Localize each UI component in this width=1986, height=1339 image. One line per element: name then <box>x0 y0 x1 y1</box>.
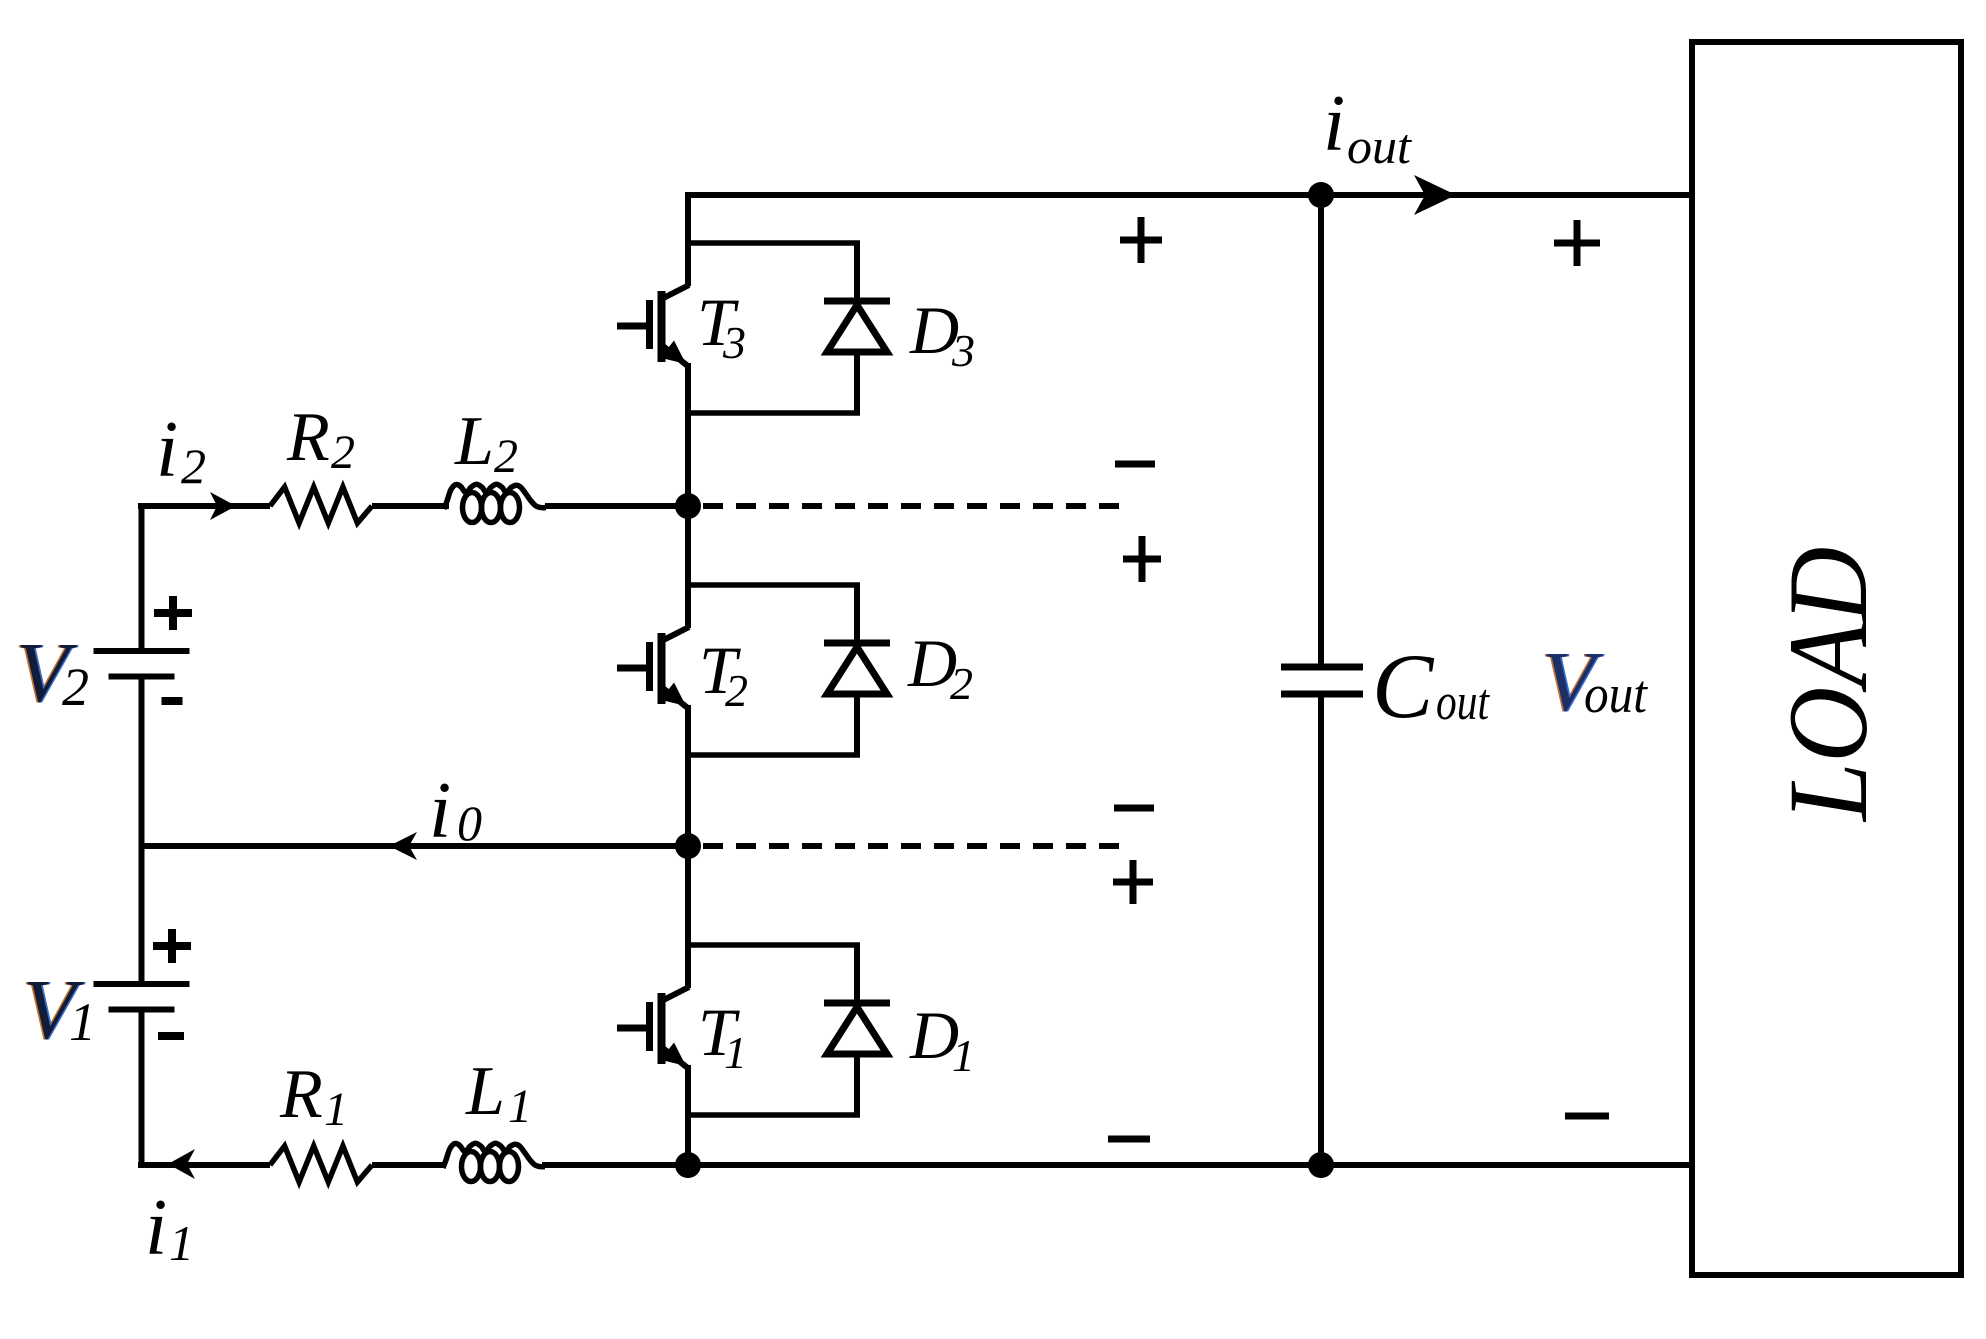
wire: T1/D1 loop bottom connector <box>688 1112 860 1118</box>
wire: L2 to node A <box>545 503 688 509</box>
polarity - above dashed node B net <box>1114 805 1154 812</box>
diode D1 <box>824 945 890 1115</box>
polarity - of V1 <box>158 1032 184 1040</box>
svg-text:2: 2 <box>950 658 973 709</box>
wire: middle column top stub <box>685 192 691 286</box>
diode D2 <box>824 585 890 755</box>
wire: bottom rail left corner to R1 <box>138 1162 270 1168</box>
transistor T2 (IGBT) <box>617 627 689 709</box>
wire: T2/D2 loop bottom connector <box>688 752 860 758</box>
svg-text:1: 1 <box>952 1030 975 1081</box>
node net: dashed measurement line from node B <box>703 843 1128 849</box>
node B (i0/T2/T1 junction) <box>675 833 701 859</box>
svg-text:1: 1 <box>508 1080 532 1133</box>
LOAD block <box>1692 42 1961 1275</box>
svg-text:1: 1 <box>724 1027 747 1078</box>
wire: node A to T2 collector <box>685 506 691 628</box>
diode D3 <box>824 243 890 413</box>
battery V2 <box>94 651 190 677</box>
capacitor Cout <box>1281 667 1363 694</box>
svg-text:out: out <box>1584 664 1649 724</box>
wire: T1/D1 loop top connector <box>688 942 860 948</box>
svg-text:1: 1 <box>69 992 96 1052</box>
arrow: iout current direction <box>1414 175 1456 215</box>
svg-text:L: L <box>465 1053 505 1130</box>
node: Cout on bottom rail <box>1308 1152 1334 1178</box>
wire: V2 minus plate down to i0 junction <box>139 677 145 846</box>
svg-text:R: R <box>279 1056 323 1133</box>
label V1 <box>21 961 96 1057</box>
svg-text:1: 1 <box>324 1083 348 1136</box>
transistor T1 (IGBT) <box>617 987 689 1069</box>
svg-text:2: 2 <box>181 438 206 494</box>
svg-text:i: i <box>429 767 451 855</box>
node A (L2/T3/T2 junction) <box>675 493 701 519</box>
wire: top feeder V2 to R2 <box>138 503 270 509</box>
svg-text:2: 2 <box>62 657 89 717</box>
svg-text:LOAD: LOAD <box>1766 547 1891 823</box>
inductor L2 <box>444 484 546 522</box>
svg-text:out: out <box>1436 674 1490 731</box>
wire: V1 minus plate down to bottom-left corner <box>139 1009 145 1168</box>
svg-text:L: L <box>454 403 494 480</box>
wire: Cout branch upper <box>1318 195 1324 667</box>
polarity - above dashed node A net <box>1115 461 1155 468</box>
polarity + top cell below output rail <box>1120 237 1162 244</box>
wire: bottom rail Cout node to LOAD <box>1321 1162 1692 1168</box>
wire: L1 to bottom node <box>542 1162 688 1168</box>
node net: dashed measurement line from node A <box>703 503 1130 509</box>
svg-text:2: 2 <box>494 430 518 483</box>
svg-text:i: i <box>156 406 178 494</box>
wire: T1 emitter to bottom rail <box>685 1065 691 1165</box>
svg-text:2: 2 <box>331 426 355 479</box>
wire: T2/D2 loop top connector <box>688 582 860 588</box>
resistor R2 <box>270 487 372 523</box>
svg-text:3: 3 <box>951 325 975 376</box>
polarity - of V2 <box>162 697 183 705</box>
arrow: i1 current direction <box>168 1149 195 1179</box>
svg-text:i: i <box>145 1184 167 1272</box>
wire: T3 emitter to node A <box>685 363 691 506</box>
polarity - of Vout at LOAD <box>1565 1113 1609 1120</box>
polarity - bottom cell above bottom rail <box>1108 1136 1150 1143</box>
transistor T3 (IGBT) <box>617 285 689 367</box>
wire: T3/D3 loop top connector <box>688 240 860 246</box>
arrow: i2 current direction <box>210 492 236 520</box>
polarity + below dashed node B net <box>1113 879 1153 886</box>
wire: R1 to L1 <box>372 1162 446 1168</box>
wire: Cout branch lower <box>1318 694 1324 1165</box>
arrow: i0 current direction <box>389 832 417 860</box>
polarity + of V1 <box>153 942 191 950</box>
node: T1 emitter on bottom rail <box>675 1152 701 1178</box>
wire: i0 junction down to V1 <box>139 846 145 984</box>
svg-text:C: C <box>1372 635 1435 737</box>
inductor L1 <box>443 1143 545 1181</box>
wire: left rail top corner down to V2 <box>139 503 145 651</box>
wire: top output rail <box>688 192 1692 198</box>
svg-text:i: i <box>1323 80 1345 168</box>
svg-text:out: out <box>1347 118 1412 174</box>
node: iout takeoff on top rail <box>1308 182 1334 208</box>
wire: bottom rail to Cout node <box>688 1162 1321 1168</box>
wire: T3/D3 loop bottom connector <box>688 410 860 416</box>
battery V1 <box>94 984 190 1010</box>
svg-text:0: 0 <box>457 795 482 851</box>
svg-text:1: 1 <box>169 1215 194 1271</box>
label V2 <box>14 624 89 720</box>
wire: node B to T1 collector <box>685 846 691 988</box>
polarity + of Vout at LOAD <box>1554 240 1600 247</box>
resistor R1 <box>270 1146 372 1182</box>
wire: i0 return middle wire <box>142 843 689 849</box>
svg-text:R: R <box>286 399 330 476</box>
polarity + of V2 <box>154 609 192 617</box>
polarity + below dashed node A net <box>1123 556 1161 563</box>
svg-text:3: 3 <box>722 317 746 368</box>
label Vout <box>1540 633 1649 729</box>
wire: R2 to L2 <box>372 503 449 509</box>
wire: T2 emitter to node B <box>685 705 691 846</box>
svg-text:2: 2 <box>725 665 748 716</box>
